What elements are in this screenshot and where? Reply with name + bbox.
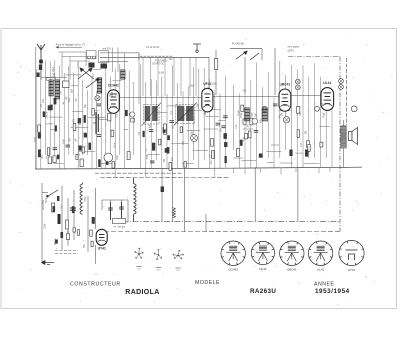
- wire screen feed drop 2: [172, 168, 174, 221]
- aerial coil former box: [46, 77, 55, 80]
- wire HT drop 4: [254, 167, 256, 221]
- pickup jack J1: [283, 117, 289, 123]
- svg-text:0,05: 0,05: [301, 142, 303, 147]
- svg-text:110-245V: 110-245V: [42, 199, 45, 210]
- svg-text:UY41: UY41: [98, 246, 106, 250]
- svg-text:500k: 500k: [212, 83, 218, 85]
- IF transformer T2: [174, 103, 197, 126]
- tube base diagram UCH42: [221, 241, 245, 272]
- svg-text:25µF: 25µF: [44, 223, 46, 229]
- value labels power: [44, 196, 87, 248]
- wire tube top bus: [120, 96, 321, 98]
- oscillator trimmer node g: [93, 56, 96, 59]
- svg-text:50pF: 50pF: [69, 97, 71, 103]
- wire heater dashed return: [55, 251, 78, 254]
- aerial coil L2: [55, 80, 60, 99]
- waveband switch wafer W2: [154, 249, 162, 272]
- wires antenna coupling risers: [113, 48, 125, 73]
- value labels RF: [35, 66, 119, 160]
- decoupling capacitor block C15: [245, 108, 250, 121]
- dial lamp LP2: [191, 135, 198, 142]
- value labels IF: [139, 103, 222, 164]
- svg-text:2M: 2M: [164, 159, 166, 162]
- wire HT drop 5: [297, 167, 299, 221]
- svg-text:ANNEE: ANNEE: [314, 282, 334, 288]
- svg-text:2M: 2M: [70, 138, 72, 141]
- aerial input transformer sym: [193, 44, 201, 52]
- rectifier tube V5 UY41: [96, 229, 107, 250]
- svg-text:2M: 2M: [46, 115, 48, 118]
- svg-text:UF41: UF41: [259, 267, 267, 271]
- wire chassis box right edge (dash-dot): [288, 57, 347, 232]
- resistor R20: [58, 214, 61, 224]
- decoupling capacitor block C16: [262, 108, 268, 121]
- waveband switch wafer W3: [173, 250, 184, 272]
- value labels AF: [236, 102, 326, 147]
- svg-text:1nF: 1nF: [256, 113, 258, 118]
- resistors and capacitors IF section: [143, 124, 228, 170]
- svg-text:UBC41: UBC41: [287, 268, 297, 272]
- antenna lead blobs: [39, 65, 42, 71]
- svg-text:50pF: 50pF: [205, 110, 207, 116]
- IF amplifier tube V2 UF41: [202, 82, 213, 112]
- svg-text:2M: 2M: [305, 131, 307, 134]
- volume potentiometer P1: [93, 112, 98, 134]
- svg-text:vers cadre: vers cadre: [288, 46, 300, 49]
- wire chassis line (dash-dot): [112, 220, 340, 223]
- svg-text:50pF: 50pF: [324, 112, 326, 118]
- svg-text:MODELE: MODELE: [195, 280, 220, 286]
- filter capacitor C32: [119, 202, 124, 218]
- svg-text:C1 12 pF S1: C1 12 pF S1: [146, 46, 160, 49]
- svg-text:PU 900 kΩ: PU 900 kΩ: [232, 43, 244, 46]
- svg-text:25µF: 25µF: [251, 112, 253, 118]
- wire screen feed drop 3: [184, 168, 186, 231]
- svg-text:25µF: 25µF: [63, 138, 65, 144]
- svg-text:500k: 500k: [46, 197, 48, 203]
- RF choke L4: [121, 70, 126, 79]
- svg-text:1nF: 1nF: [173, 125, 175, 130]
- svg-text:CONSTRUCTEUR: CONSTRUCTEUR: [70, 282, 121, 288]
- oscillator trimmer node f: [88, 56, 91, 59]
- svg-text:8µF: 8µF: [150, 123, 152, 128]
- fuse F1: [52, 203, 55, 212]
- triode-hexode tube V1 UCH42: [108, 83, 120, 113]
- resistor R21: [66, 220, 69, 229]
- resistors and capacitors AF section: [236, 105, 323, 157]
- svg-text:500k: 500k: [85, 196, 87, 202]
- svg-text:70pF: 70pF: [79, 152, 81, 158]
- power label blobs: [53, 196, 64, 238]
- svg-text:UCH42: UCH42: [108, 83, 119, 87]
- aerial coil L1: [49, 80, 54, 96]
- output tube V4 UL41: [321, 81, 334, 110]
- value labels top: [159, 59, 247, 92]
- svg-text:UCH42: UCH42: [228, 268, 238, 272]
- mains switch S3: [47, 190, 58, 197]
- wire oscillator top link: [216, 48, 275, 95]
- waveband switch wafer W1: [135, 248, 144, 271]
- svg-text:1nF: 1nF: [300, 111, 302, 116]
- thermistor box TH1: [113, 219, 126, 224]
- detector tube V3 UBC41: [279, 83, 291, 112]
- svg-text:5nF: 5nF: [85, 103, 87, 108]
- node c: [315, 106, 320, 111]
- wire heater supply bus: [35, 167, 362, 169]
- wires AF section verticals: [233, 61, 332, 168]
- wire B-minus return (dashed): [104, 230, 340, 233]
- wire speaker leads: [340, 120, 362, 167]
- svg-text:230 V: 230 V: [288, 50, 295, 53]
- svg-text:500k: 500k: [147, 153, 149, 159]
- wire screen feed drop 1: [161, 168, 163, 221]
- tuning gang capacitor CV1: [78, 68, 94, 79]
- tone cap node d: [351, 106, 357, 112]
- svg-text:0,5M: 0,5M: [159, 72, 164, 74]
- padding capacitor C2: [63, 81, 70, 88]
- svg-text:50pF: 50pF: [112, 91, 114, 97]
- svg-text:25µF: 25µF: [53, 66, 55, 72]
- svg-text:8µF: 8µF: [72, 88, 74, 93]
- oscillator padder blob 2: [101, 64, 108, 69]
- svg-text:2M: 2M: [282, 113, 284, 116]
- svg-text:UL41: UL41: [317, 268, 325, 272]
- tube base diagram UY41: [339, 240, 364, 271]
- power section resistors: [55, 206, 95, 246]
- tuning gang capacitor CV2: [86, 78, 99, 88]
- svg-text:TH. RELAIS: TH. RELAIS: [113, 226, 125, 229]
- terminal t2: [295, 85, 300, 90]
- svg-text:Pour le réglage voir p. 27: Pour le réglage voir p. 27: [56, 43, 86, 47]
- terminal t4: [339, 85, 344, 90]
- wire antenna input top line: [100, 53, 209, 88]
- antenna: [37, 44, 45, 63]
- oscillator coil L3: [97, 78, 102, 93]
- svg-text:1nF: 1nF: [236, 124, 238, 129]
- svg-text:UL41: UL41: [323, 81, 331, 85]
- svg-text:70pF: 70pF: [117, 154, 119, 160]
- trimmer node a: [95, 96, 100, 101]
- svg-text:1M: 1M: [64, 102, 66, 105]
- heater dropper coil L6: [134, 178, 137, 222]
- svg-text:500k: 500k: [115, 142, 117, 148]
- filter capacitor C31: [108, 202, 113, 220]
- svg-text:25µF: 25µF: [241, 112, 243, 118]
- wires oscillator coupling top-left: [58, 52, 139, 104]
- svg-text:5nF: 5nF: [84, 243, 86, 248]
- coupling capacitor C18: [259, 154, 263, 158]
- wire mains left: [42, 183, 96, 264]
- svg-text:GO-PO-OC: GO-PO-OC: [152, 63, 165, 66]
- terminal t1: [295, 79, 300, 84]
- node b: [252, 119, 258, 125]
- svg-text:UF41: UF41: [203, 82, 211, 86]
- svg-text:1nF: 1nF: [76, 138, 78, 143]
- tube base diagram UF41: [251, 241, 274, 270]
- oscillator grid resistor R5: [214, 59, 217, 70]
- svg-text:0,05: 0,05: [80, 120, 82, 125]
- svg-text:2M: 2M: [247, 124, 249, 127]
- svg-text:UY41: UY41: [348, 268, 356, 272]
- output transformer T3: [341, 126, 346, 148]
- svg-text:RA263U: RA263U: [250, 288, 276, 295]
- tube base diagram UBC41: [280, 241, 304, 272]
- oscillator section box 1: [87, 51, 97, 59]
- terminal t3: [339, 79, 344, 84]
- wire AVC return bus (dashed): [95, 173, 230, 177]
- wire power links: [102, 200, 128, 222]
- oscillator section box 2: [99, 51, 109, 63]
- grid leak lamp LP3: [130, 112, 135, 117]
- svg-text:500k: 500k: [35, 136, 37, 142]
- svg-text:1M: 1M: [41, 104, 43, 107]
- wires IF section verticals: [141, 64, 226, 177]
- tube base diagram UL41: [308, 241, 332, 272]
- wires heater stubs below bus: [233, 167, 330, 174]
- smoothing resistor R16: [161, 186, 164, 192]
- svg-text:ant P.U.: ant P.U.: [103, 47, 112, 51]
- oscillator padder blob 1: [89, 63, 95, 68]
- svg-text:1953/1954: 1953/1954: [315, 288, 350, 295]
- svg-text:RADIOLA: RADIOLA: [125, 289, 159, 296]
- wires pushbutton rail drops: [143, 58, 196, 97]
- wires RF interconnects: [46, 69, 128, 163]
- resistors and capacitors RF section: [38, 98, 130, 168]
- pushbutton rail (dashed) with label: [140, 56, 172, 65]
- fixed capacitors scatter: [53, 104, 278, 163]
- IF transformer T1: [142, 103, 162, 127]
- wire HT fuse drop: [205, 214, 207, 231]
- svg-text:UBC41: UBC41: [279, 83, 290, 87]
- waveband switch S2: [236, 51, 259, 60]
- svg-text:25µF: 25µF: [192, 129, 194, 135]
- mains dropper choke L5: [80, 183, 83, 215]
- ground chassis arrow: [42, 261, 55, 265]
- wires IF interconnects: [148, 106, 226, 164]
- loudspeaker HP: [349, 128, 358, 145]
- wires AF interconnects: [233, 111, 330, 164]
- dial lamp LP1: [104, 153, 113, 162]
- feedback resistor R17: [173, 208, 176, 218]
- wires RF section verticals: [36, 60, 134, 177]
- svg-text:0,05: 0,05: [116, 93, 118, 98]
- capacitor C30: [70, 208, 76, 210]
- note pour le reglage: [56, 43, 86, 49]
- wire antenna lead: [40, 63, 42, 80]
